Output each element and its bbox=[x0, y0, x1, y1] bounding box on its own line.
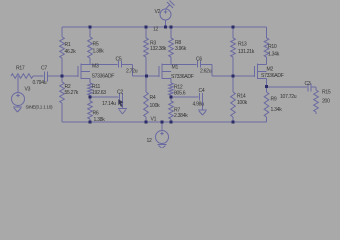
svg-text:17.14u: 17.14u bbox=[102, 101, 116, 107]
svg-text:S7336ADF: S7336ADF bbox=[261, 73, 284, 79]
svg-text:1.38k: 1.38k bbox=[93, 49, 105, 55]
svg-text:100k: 100k bbox=[150, 103, 161, 109]
svg-text:C3: C3 bbox=[305, 81, 311, 87]
svg-text:R13: R13 bbox=[238, 42, 247, 48]
svg-text:M3: M3 bbox=[92, 64, 99, 70]
svg-text:1.38k: 1.38k bbox=[94, 117, 106, 123]
svg-text:1.34k: 1.34k bbox=[271, 107, 283, 113]
svg-text:S7336ADF: S7336ADF bbox=[171, 74, 194, 80]
svg-text:12: 12 bbox=[147, 138, 153, 144]
svg-text:805.6: 805.6 bbox=[174, 91, 186, 97]
svg-text:V3: V3 bbox=[25, 87, 31, 93]
svg-text:2.62u: 2.62u bbox=[200, 69, 212, 75]
svg-text:4.98u: 4.98u bbox=[193, 102, 205, 108]
svg-text:C7: C7 bbox=[41, 66, 47, 72]
svg-text:R4: R4 bbox=[150, 95, 156, 101]
svg-text:2.72u: 2.72u bbox=[126, 69, 138, 75]
svg-text:R5: R5 bbox=[93, 42, 99, 48]
svg-text:C5: C5 bbox=[116, 57, 122, 63]
svg-text:55.27k: 55.27k bbox=[65, 90, 79, 96]
svg-text:46.2k: 46.2k bbox=[65, 49, 77, 55]
svg-text:M1: M1 bbox=[172, 64, 179, 70]
svg-text:V1: V1 bbox=[151, 117, 157, 123]
svg-text:M2: M2 bbox=[267, 67, 274, 73]
svg-text:R9: R9 bbox=[271, 97, 277, 103]
svg-text:R10: R10 bbox=[268, 44, 277, 50]
svg-text:V2: V2 bbox=[155, 9, 161, 15]
svg-text:SINE(0.1 1 10): SINE(0.1 1 10) bbox=[26, 105, 54, 110]
svg-text:R14: R14 bbox=[237, 94, 246, 100]
svg-text:12: 12 bbox=[153, 27, 159, 33]
svg-text:C2: C2 bbox=[117, 90, 123, 96]
svg-text:R1: R1 bbox=[65, 42, 71, 48]
svg-text:R17: R17 bbox=[16, 66, 25, 72]
svg-text:R6: R6 bbox=[93, 111, 99, 117]
svg-text:132.38k: 132.38k bbox=[150, 46, 167, 52]
svg-text:C6: C6 bbox=[196, 57, 202, 63]
svg-text:107.72u: 107.72u bbox=[280, 94, 297, 100]
svg-text:1.34k: 1.34k bbox=[268, 52, 280, 58]
svg-text:131.21k: 131.21k bbox=[238, 49, 255, 55]
svg-text:200: 200 bbox=[322, 99, 330, 105]
svg-text:2.384k: 2.384k bbox=[174, 113, 188, 119]
svg-text:S7336ADF: S7336ADF bbox=[92, 73, 115, 79]
svg-text:0.794u: 0.794u bbox=[33, 80, 47, 86]
svg-text:3.96k: 3.96k bbox=[175, 46, 187, 52]
svg-text:R15: R15 bbox=[322, 90, 331, 96]
svg-text:100k: 100k bbox=[237, 100, 248, 106]
svg-text:C4: C4 bbox=[199, 88, 205, 94]
svg-text:192.63: 192.63 bbox=[92, 90, 106, 96]
